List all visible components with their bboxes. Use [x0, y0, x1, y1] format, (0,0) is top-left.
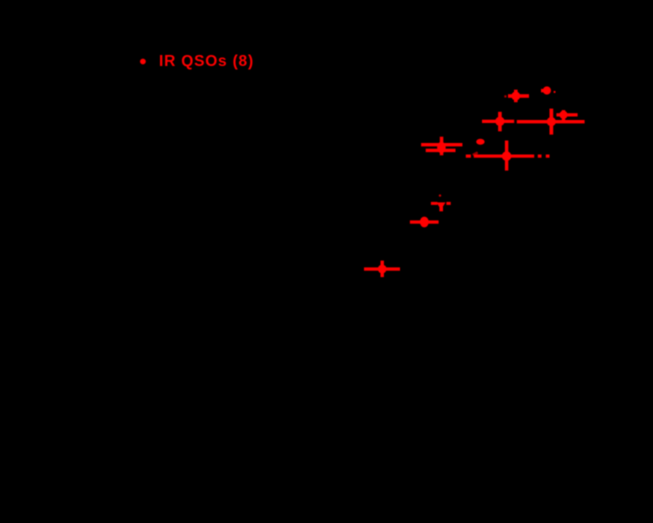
data point P3 at (499.9, 121.3) with error bars: [482, 112, 514, 132]
data point P2 at (546.9, 90.5): [541, 86, 556, 94]
data point P9 upper-limit marker at (440.8, 203.5) with dashed bar: [431, 194, 451, 211]
data point P8 big cross at (506.6, 156.1) with dashed horizontal bar: [466, 141, 550, 171]
data point P10 at (424.4, 222.0) with horizontal error bar: [410, 217, 439, 228]
svg-text:IR QSOs (8): IR QSOs (8): [159, 53, 254, 70]
data point P6b at (441.5, 150.4) lower of overlapping pair: [426, 142, 456, 153]
data point P7 small ellipse at (480.4, 141.8): [472, 139, 484, 156]
data point P1 at (515.8, 96) with error bars: [504, 90, 529, 103]
data point P6a at (441.5, 144.7) upper of overlapping pair: [421, 137, 462, 156]
data point P11 isolated at (382.2, 269.0) with error bars: [364, 261, 400, 278]
data point P5 at (563.5, 114.8) with error bars: [556, 110, 577, 120]
legend marker: red dot: [140, 59, 146, 65]
data point P4 at (551.3, 121.6) with long horizontal error bar: [517, 109, 585, 135]
